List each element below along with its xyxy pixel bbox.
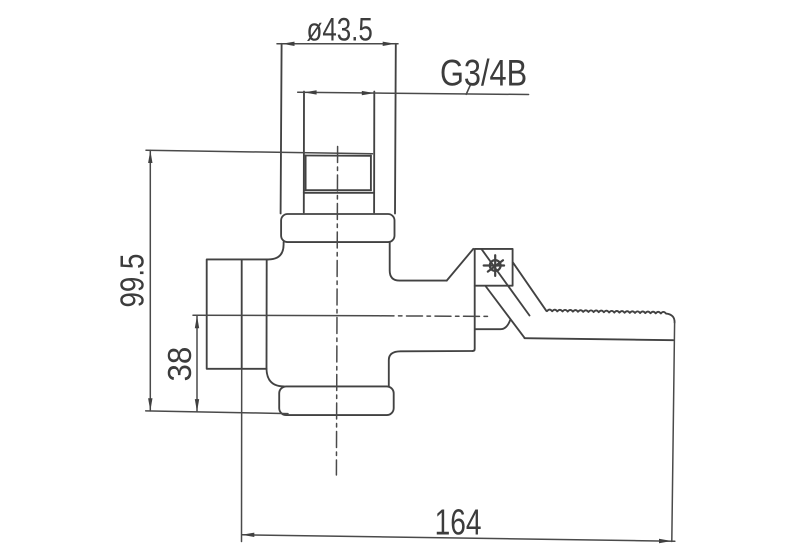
arrow 99.5 top (148, 150, 152, 163)
top nut outer right line (394, 44, 397, 214)
arrow inner dia left (304, 90, 317, 94)
cone line through box (482, 249, 530, 315)
ext/center horizontal solid part (193, 314, 378, 317)
dim line 164 (242, 535, 675, 541)
slash descender of G3/4B touching leader (466, 84, 471, 94)
thread rect inner bottom (305, 189, 371, 191)
arrow d43.5 right (383, 42, 396, 46)
thread rect outer bottom (304, 192, 374, 194)
cone upper outer line (513, 262, 547, 311)
stem star vertical ray (494, 255, 496, 276)
thread rect inner top (305, 155, 371, 157)
lower right step (389, 351, 473, 387)
arrow 164 left (242, 533, 255, 537)
svg-text:ø43.5: ø43.5 (307, 13, 373, 48)
outlet pipe bottom edge (525, 338, 674, 340)
vertical centerline dash-dot (336, 147, 337, 476)
outlet thread crest line (547, 310, 675, 323)
dim line 38 (196, 316, 198, 412)
svg-text:38: 38 (161, 347, 198, 382)
body right edge below box (473, 286, 475, 351)
lower collar (279, 386, 394, 415)
horizontal centerline dash-dot (378, 315, 489, 318)
stem box (475, 249, 513, 286)
body left edge with fillet to side port (268, 242, 283, 259)
svg-text:G3/4B: G3/4B (440, 53, 527, 95)
side port outline (207, 259, 269, 368)
svg-text:164: 164 (435, 502, 482, 542)
stem star anti-diagonal ray (488, 260, 503, 271)
arrow inner dia right (362, 91, 375, 95)
arrow 38 bottom (195, 399, 199, 412)
arrow 164 right (659, 539, 672, 543)
ext line top for 99.5 (146, 150, 373, 154)
svg-text:99.5: 99.5 (114, 254, 151, 308)
ext line 164 right / pipe end edge (672, 323, 675, 542)
ext line 164 left (241, 369, 243, 542)
top nut outer left line (281, 44, 282, 214)
dim line inner diameter + leader to G3/4B (298, 92, 529, 94)
thread rect inner left (305, 156, 307, 191)
body right edge below upper collar with fillet to step (390, 242, 447, 281)
chamfer to stem box (447, 249, 474, 281)
top nut inner left line (303, 92, 305, 213)
inner step with fillet joining cone (475, 320, 510, 329)
dim line 99.5 (149, 150, 151, 411)
upper collar (281, 214, 394, 242)
ext line bottom shared (146, 411, 288, 414)
top nut inner right line (373, 92, 375, 213)
dimension and centerline group (146, 44, 675, 542)
arrow 99.5 bottom (148, 398, 152, 411)
dim line diameter 43.5 (277, 43, 398, 45)
arrow 38 top (195, 316, 199, 329)
fillet port bottom to lower collar (267, 369, 285, 387)
side port face line (241, 259, 243, 368)
cone lower outer line (486, 286, 525, 338)
arrow d43.5 left (282, 42, 295, 46)
stem star circle (490, 260, 501, 271)
thread rect inner right (370, 156, 372, 191)
stem star horizontal ray (484, 264, 504, 266)
